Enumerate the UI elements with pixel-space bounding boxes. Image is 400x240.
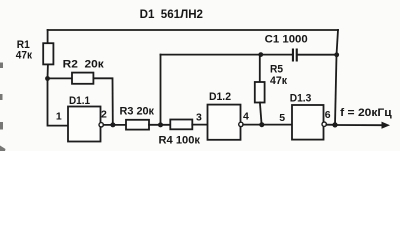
wire top rail bbox=[48, 29, 338, 31]
resistor R3 bbox=[126, 120, 149, 130]
wire R5 bottom riser bbox=[260, 103, 262, 125]
capacitor C1 plate left bbox=[292, 49, 294, 62]
wire node A to R2 bbox=[48, 77, 73, 79]
resistor R4 bbox=[170, 120, 192, 130]
node E junction dot (C1 right) bbox=[334, 52, 339, 57]
node B junction dot bbox=[110, 122, 115, 127]
wire pin 6 to output node bbox=[326, 124, 335, 126]
svg-text:R5: R5 bbox=[270, 63, 283, 75]
svg-text:D1.3: D1.3 bbox=[290, 92, 312, 104]
wire R1 bottom to node A bbox=[47, 64, 49, 78]
gate D1.1 bbox=[68, 107, 101, 142]
svg-text:1: 1 bbox=[56, 111, 62, 123]
wire pin 2 to node B bbox=[103, 124, 126, 126]
svg-text:D1 561ЛН2: D1 561ЛН2 bbox=[140, 7, 204, 21]
svg-text:D1.2: D1.2 bbox=[209, 91, 231, 103]
wire output arrow bbox=[335, 124, 385, 126]
inverter bubble pin 2 bbox=[99, 123, 103, 127]
node A junction dot bbox=[45, 76, 50, 81]
gate D1.2 bbox=[208, 105, 241, 140]
svg-text:2: 2 bbox=[101, 108, 107, 120]
scan artifact left edge mark 1 bbox=[0, 63, 3, 69]
resistor R2 bbox=[72, 73, 93, 84]
gate D1.3 bbox=[292, 105, 324, 140]
wire R5 top riser bbox=[259, 55, 261, 82]
node C junction dot bbox=[158, 122, 163, 127]
resistor R1 bbox=[43, 43, 53, 64]
wire mid rail left bbox=[161, 54, 293, 56]
capacitor C1 plate right bbox=[296, 49, 298, 62]
wire R2 right to corner bbox=[94, 78, 113, 125]
wire R4 to pin 3 bbox=[192, 124, 207, 126]
svg-text:47к: 47к bbox=[270, 75, 287, 87]
svg-text:D1.1: D1.1 bbox=[69, 95, 90, 107]
wire right vertical (top rail to output node) bbox=[335, 30, 338, 125]
wire pin 4 to pin 5 bbox=[243, 124, 292, 126]
resistor R5 bbox=[255, 82, 265, 103]
inverter bubble pin 4 bbox=[239, 122, 243, 126]
arrowhead output bbox=[382, 122, 391, 129]
wire feedback riser at node C bbox=[160, 55, 162, 125]
node G output junction dot bbox=[332, 122, 337, 127]
wire R3 to R4 bbox=[149, 124, 170, 126]
svg-text:C1 1000: C1 1000 bbox=[265, 34, 308, 46]
wire node A down to pin 1 bbox=[48, 79, 69, 126]
scan artifact left edge mark 4 bbox=[0, 146, 6, 152]
wire mid rail right bbox=[298, 54, 337, 56]
svg-text:5: 5 bbox=[279, 112, 285, 124]
node D junction dot (C1 left) bbox=[258, 52, 263, 57]
svg-text:R4 100к: R4 100к bbox=[159, 135, 201, 147]
svg-text:R2 20к: R2 20к bbox=[63, 58, 104, 70]
svg-text:f = 20кГц: f = 20кГц bbox=[340, 107, 392, 119]
svg-text:6: 6 bbox=[325, 109, 331, 121]
node F junction dot (R5 bottom) bbox=[259, 122, 264, 127]
scan artifact left edge mark 2 bbox=[0, 94, 3, 100]
svg-text:3: 3 bbox=[196, 112, 202, 124]
inverter bubble pin 6 bbox=[322, 122, 326, 126]
svg-text:4: 4 bbox=[243, 111, 249, 123]
wire R1 top riser bbox=[47, 30, 49, 43]
svg-text:R3 20к: R3 20к bbox=[120, 106, 155, 118]
svg-text:47к: 47к bbox=[16, 50, 33, 62]
scan artifact left edge mark 3 bbox=[0, 122, 3, 130]
